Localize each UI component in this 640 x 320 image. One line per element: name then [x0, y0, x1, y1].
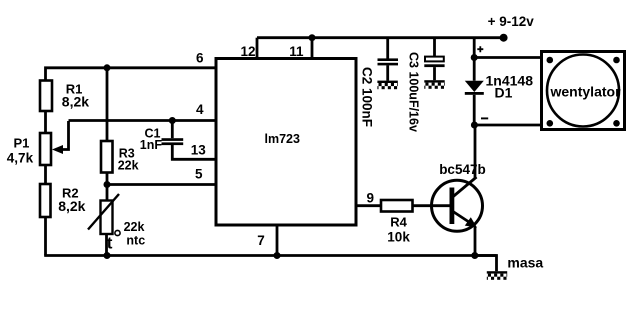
- supply terminal +9-12v: [500, 34, 508, 42]
- transistor collector line: [452, 177, 477, 198]
- wire to masa ground: [475, 256, 497, 272]
- svg-text:12: 12: [240, 44, 255, 59]
- svg-text:P1: P1: [14, 136, 30, 151]
- resistor R1: [40, 81, 52, 112]
- wire P1 to R2: [44, 165, 47, 184]
- fan hole bottom-left: [547, 120, 554, 127]
- ground under C3: [424, 80, 444, 89]
- svg-text:D1: D1: [495, 85, 513, 101]
- wire plus node to fan: [474, 56, 541, 59]
- capacitor C1 1nF: [169, 117, 176, 124]
- node plus / fan: [471, 54, 478, 61]
- node minus / fan: [471, 122, 478, 129]
- svg-text:22k: 22k: [124, 220, 145, 234]
- capacitor C2 100nF: [386, 39, 389, 59]
- wire R4 to base: [413, 204, 450, 207]
- wire ground rail bottom: [44, 254, 496, 257]
- P1 wiper arrow: [62, 121, 69, 150]
- svg-text:7: 7: [257, 233, 265, 248]
- ground under C2: [377, 81, 397, 90]
- resistor R4: [381, 200, 413, 212]
- wire pin 5: [107, 183, 216, 186]
- transistor emitter line: [453, 212, 472, 225]
- pin 9 wire: [356, 204, 381, 207]
- resistor R3: [101, 141, 113, 173]
- transistor emitter arrowhead: [465, 217, 477, 227]
- pin 7 wire: [276, 225, 279, 256]
- svg-text:4,7k: 4,7k: [7, 151, 34, 166]
- resistor R2: [40, 184, 51, 217]
- fan hole top-right: [613, 57, 620, 64]
- node pin 7 / ground rail: [274, 252, 281, 259]
- svg-text:1nF: 1nF: [140, 138, 163, 152]
- pin 11 wire: [311, 38, 314, 59]
- svg-text:13: 13: [191, 143, 207, 158]
- wire R3 branch from top rail: [106, 68, 109, 141]
- svg-text:wentylator: wentylator: [550, 83, 622, 99]
- capacitor C3 100uF/16v: [433, 39, 436, 56]
- minus sign: [481, 117, 488, 119]
- pin 12 wire: [256, 38, 259, 59]
- svg-text:10k: 10k: [387, 229, 410, 244]
- transistor Q1 bc547b: [432, 180, 483, 231]
- svg-text:R4: R4: [390, 215, 407, 230]
- svg-text:8,2k: 8,2k: [58, 198, 85, 214]
- fan hole bottom-right: [613, 120, 620, 127]
- node pin 11 / supply rail: [309, 34, 316, 41]
- svg-text:+ 9-12v: + 9-12v: [488, 14, 535, 29]
- wire minus node to fan: [474, 124, 541, 127]
- svg-text:C2 100nF: C2 100nF: [360, 67, 375, 127]
- diode D1 branch wire: [473, 38, 476, 81]
- wire emitter to ground rail: [474, 227, 477, 256]
- node top rail / R3: [104, 64, 111, 71]
- thermistor NTC 22k body: [101, 201, 113, 235]
- wire minus node to transistor collector: [474, 125, 477, 178]
- svg-text:masa: masa: [507, 254, 543, 270]
- svg-text:5: 5: [195, 167, 203, 182]
- wire R2 to ground rail: [44, 217, 47, 256]
- wire top-left from R1 to pin 6: [46, 68, 217, 81]
- fan hole top-left: [547, 57, 554, 64]
- wire R1 to P1: [44, 111, 47, 133]
- svg-text:6: 6: [196, 51, 204, 66]
- svg-text:bc547b: bc547b: [439, 162, 486, 177]
- svg-text:22k: 22k: [118, 159, 139, 173]
- potentiometer P1: [40, 133, 51, 165]
- svg-text:11: 11: [289, 44, 304, 59]
- plus sign: [477, 46, 483, 52]
- wire diode to minus node: [473, 95, 476, 125]
- svg-text:lm723: lm723: [265, 132, 300, 146]
- supply rail wire: [257, 36, 504, 39]
- wire pin 4 from wiper to IC: [69, 119, 217, 122]
- node R3 / pin 5: [104, 181, 111, 188]
- wire thermistor to ground rail: [105, 234, 108, 256]
- diode D1: [465, 81, 484, 92]
- svg-text:9: 9: [366, 190, 374, 205]
- fan circle: [547, 55, 619, 127]
- svg-text:C3 100uF/16v: C3 100uF/16v: [407, 52, 421, 132]
- svg-text:4: 4: [196, 102, 204, 117]
- svg-text:8,2k: 8,2k: [62, 94, 89, 110]
- node emitter / ground rail: [471, 252, 478, 259]
- op-amp U1 lm723: [216, 59, 356, 226]
- ground masa: [487, 271, 507, 280]
- fan wentylator box: [542, 52, 625, 130]
- wire R3 to thermistor: [106, 173, 109, 201]
- thermistor diagonal: [88, 194, 119, 230]
- node thermistor / ground rail: [104, 252, 111, 259]
- svg-text:ntc: ntc: [126, 234, 145, 248]
- thermistor terminal circle: [115, 230, 120, 235]
